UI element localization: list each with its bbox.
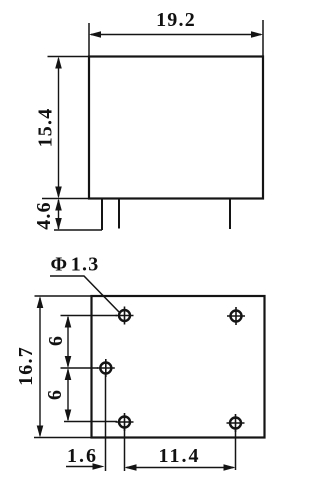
extension line above box left (19.2) <box>88 23 90 57</box>
pin 1 (left pin, side view) <box>101 199 103 231</box>
leader line for Phi 1.3 <box>50 276 119 312</box>
extension line at pin bottoms (4.6) <box>54 229 102 231</box>
relay body outline (top view) <box>89 57 263 199</box>
dimension line 16.7 <box>39 298 41 436</box>
svg-text:19.2: 19.2 <box>156 9 196 31</box>
svg-text:16.7: 16.7 <box>15 346 37 386</box>
dimension line 6 upper <box>67 317 69 367</box>
extension line hole row A (6) <box>61 315 118 317</box>
dimension line 1.6 <box>66 466 95 468</box>
hole C (middle-left) <box>97 359 115 377</box>
dimension line 11.4 <box>127 467 234 469</box>
pin 2 (middle pin, side view) <box>118 199 120 229</box>
hole E (bottom-right) <box>227 414 245 432</box>
extension line hole row D (6) <box>64 421 117 423</box>
extension line below hole D (11.4) <box>124 428 126 471</box>
extension line hole row C (6) <box>61 367 99 369</box>
extension line bottom (16.7) <box>34 437 92 439</box>
pin 3 (right pin, side view) <box>229 199 231 230</box>
svg-text:Φ1.3: Φ1.3 <box>51 254 100 276</box>
svg-text:6: 6 <box>45 336 67 346</box>
svg-text:1.6: 1.6 <box>67 445 98 467</box>
hole B (top-right) <box>227 307 245 325</box>
base plate outline (bottom view) <box>92 296 265 438</box>
dimension line 15.4 <box>58 59 60 197</box>
svg-text:6: 6 <box>44 390 66 400</box>
dimension line 19.2 <box>91 34 261 36</box>
extension line below hole E (11.4) <box>235 429 237 470</box>
dimension line 6 lower <box>67 370 69 421</box>
extension line below hole C (1.6 / 11.4) <box>105 374 107 471</box>
svg-text:15.4: 15.4 <box>35 108 57 148</box>
extension line left of box top (15.4) <box>48 56 90 58</box>
hole A (top-left) <box>116 307 134 325</box>
extension line top (16.7) <box>35 295 92 297</box>
extension line left of box bottom (15.4 / 4.6) <box>42 198 89 200</box>
hole D (bottom-left) <box>116 413 134 431</box>
dimension line 4.6 <box>58 200 60 229</box>
svg-text:11.4: 11.4 <box>159 445 201 467</box>
extension line above box right (19.2) <box>262 20 264 57</box>
svg-text:4.6: 4.6 <box>33 201 55 230</box>
